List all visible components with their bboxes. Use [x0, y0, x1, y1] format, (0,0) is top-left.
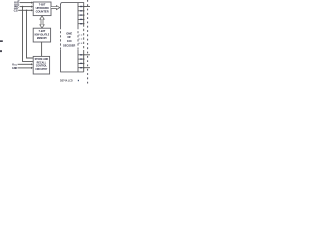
wire VCC input [18, 63, 32, 65]
svg-text:COUNTER: COUNTER [36, 9, 49, 13]
wire INC input [20, 6, 32, 8]
margin mark 2 [0, 50, 2, 52]
tap switch row 8 [78, 63, 84, 65]
svg-text:DECODER: DECODER [63, 44, 75, 48]
block U4 one-of-100 decoder outline [60, 3, 84, 72]
omitted taps dashes [78, 34, 82, 36]
wire CS to store/recall [27, 10, 33, 58]
svg-text:MEMORY: MEMORY [37, 36, 47, 40]
wire memory to store/recall [41, 42, 43, 56]
decoder right edge dashed middle [77, 27, 79, 50]
svg-text:OF: OF [67, 35, 71, 39]
svg-text:UP/DOWN: UP/DOWN [36, 6, 49, 10]
decoder right edge solid top [77, 3, 79, 27]
margin mark 1 [0, 40, 3, 42]
bus arrow counter to decoder (hollow) [51, 6, 60, 10]
wire CS input [18, 9, 31, 11]
tap switch row 1 [78, 6, 84, 8]
block U3 store and recall control circuitry [33, 56, 49, 74]
resistor ladder solid top [83, 7, 85, 25]
svg-text:7-BIT: 7-BIT [39, 29, 46, 33]
stray mark near caption [78, 80, 79, 81]
resistor ladder solid bottom [83, 50, 85, 72]
decoder top edge with elbow to ladder [61, 3, 84, 7]
svg-text:ONE: ONE [66, 32, 72, 36]
decoder bottom edge [60, 71, 84, 73]
svg-text:100: 100 [67, 39, 72, 43]
terminal RL wire [84, 67, 90, 69]
terminal RH wire [84, 6, 90, 8]
device boundary dashed [87, 0, 89, 86]
block U1 7-bit up/down counter [33, 2, 51, 16]
terminal RW wire [84, 54, 90, 56]
svg-text:7-BIT: 7-BIT [39, 3, 46, 7]
bus arrow counter to memory (hollow double-headed) [40, 16, 44, 28]
resistor ladder dashed middle [83, 25, 85, 50]
tap switch row 9 [78, 67, 84, 69]
tap switch row 2 [78, 10, 84, 12]
wire INC to store/recall [23, 7, 33, 62]
tap switch row 7 [78, 58, 84, 60]
junction CS [26, 10, 28, 12]
decoder left edge solid top [60, 4, 62, 27]
tap switch row 4 [78, 19, 84, 21]
decoder left edge solid bottom [60, 50, 62, 72]
tap switch row 3 [78, 14, 84, 16]
svg-text:DS74A LCD: DS74A LCD [60, 79, 73, 83]
tap switch row 6 [78, 54, 84, 56]
svg-text:GND: GND [12, 66, 17, 70]
decoder right edge solid bottom [77, 50, 79, 72]
svg-text:CS: CS [14, 8, 18, 12]
svg-text:CIRCUITRY: CIRCUITRY [35, 68, 47, 71]
junction INC [22, 6, 24, 8]
wire GND input [18, 67, 32, 69]
wire UD input [20, 2, 32, 4]
decoder left edge dashed middle [60, 27, 62, 50]
block U2 7-bit non-volatile memory [33, 28, 50, 42]
tap switch row 5 [78, 23, 84, 25]
